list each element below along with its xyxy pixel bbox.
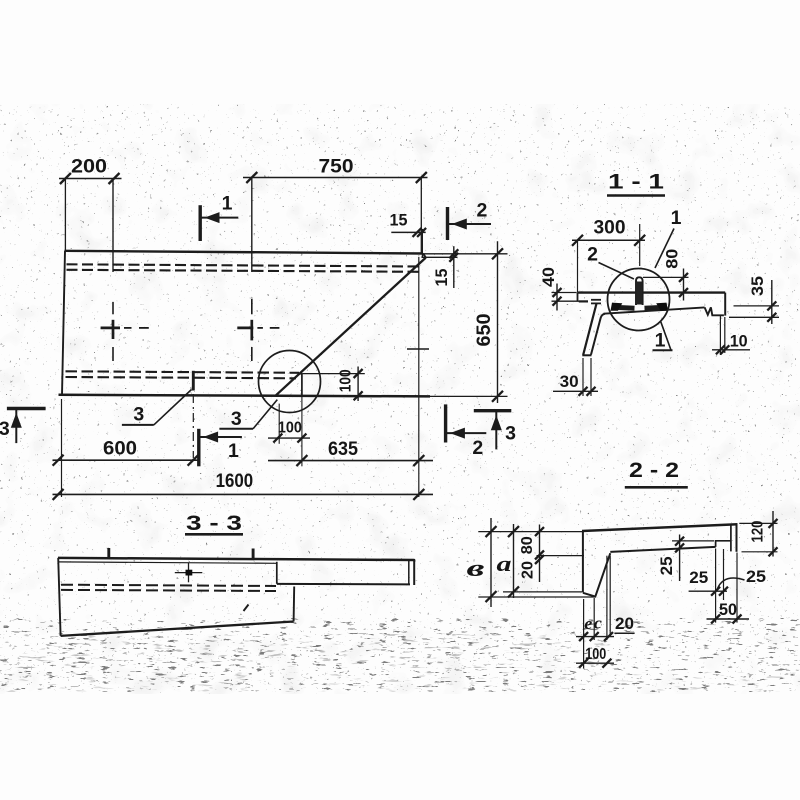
plan view: center line v2 dash bbox=[251, 299, 253, 314]
dimension 50 (2-2): line bbox=[707, 618, 750, 620]
svg-text:2: 2 bbox=[472, 437, 483, 459]
section mark 1 bottom: arrow line bbox=[199, 436, 242, 438]
section 3-3 cut mark on slab bbox=[192, 371, 195, 391]
svg-text:2: 2 bbox=[476, 200, 487, 222]
section 1-1: anchor right arm bbox=[645, 307, 666, 308]
dimension 750 right extension bbox=[420, 178, 422, 254]
plan view: center line v1 upper solid bbox=[112, 179, 114, 272]
section 2-2: leg left edge bbox=[582, 531, 584, 592]
plan view: notch horizontal edge bbox=[299, 373, 302, 375]
verticals under bar right (2-2) bbox=[715, 549, 717, 623]
scan speckle noise secondary bbox=[0, 110, 800, 690]
svg-text:25: 25 bbox=[657, 556, 676, 575]
svg-text:1: 1 bbox=[671, 207, 682, 229]
plan view: cross 2 horizontal thick bbox=[237, 327, 253, 330]
plan view: slab bottom edge bbox=[59, 395, 431, 397]
scan smudge band lower bbox=[0, 672, 800, 692]
detail circle in plan bbox=[259, 351, 321, 413]
section 3-3: anchor stem 1 bbox=[107, 548, 110, 559]
svg-text:а: а bbox=[497, 551, 512, 576]
section 1-1: V notch bbox=[705, 307, 711, 315]
section 3-3: dashed line 1 bbox=[61, 585, 276, 586]
plan view: notch vertical edge bbox=[301, 374, 303, 397]
svg-text:10: 10 bbox=[730, 331, 748, 350]
section 1-1: leg bottom bbox=[582, 354, 591, 356]
plan view: center line v2 lower dash bbox=[251, 347, 253, 361]
dimension e/c row (2-2): line bbox=[576, 636, 614, 638]
plan view: cross 2 dash-dot right bbox=[257, 327, 263, 329]
section 2-2 title underline bbox=[625, 486, 688, 489]
chamfer vertical extension bbox=[421, 229, 423, 257]
dimension 15 horizontal line bbox=[391, 231, 425, 233]
section mark 1 bottom: bar bbox=[197, 429, 200, 467]
svg-text:650: 650 bbox=[473, 313, 495, 346]
dimension 100 horizontal line bbox=[268, 437, 310, 439]
plan view: lower dashed line 2 bbox=[66, 377, 297, 378]
section 3-3: bar step vertical bbox=[276, 562, 278, 584]
plan view: slab top edge bbox=[65, 251, 424, 254]
dimension 15 vertical right: line bbox=[453, 246, 455, 288]
section mark 3 right: arrow line bbox=[495, 412, 497, 450]
plan view: cross 2 vertical thick bbox=[250, 320, 253, 341]
section 3-3: bar bottom line bbox=[277, 583, 410, 586]
dimension 10 (1-1): line bbox=[712, 349, 750, 351]
scan speckle dense bottom band bbox=[0, 618, 800, 692]
svg-text:80: 80 bbox=[519, 536, 536, 554]
svg-text:1: 1 bbox=[222, 193, 233, 215]
dimension 100 (2-2): line bbox=[576, 662, 614, 664]
plan view: diagonal edge bbox=[276, 258, 426, 396]
svg-text:30: 30 bbox=[560, 372, 579, 391]
svg-text:1: 1 bbox=[228, 440, 239, 462]
dimension 25 #2 (2-2): line bbox=[689, 590, 727, 592]
section mark 1 top: bar bbox=[198, 205, 201, 241]
svg-text:15: 15 bbox=[432, 269, 451, 287]
plan view: cross 1 dash-dot right bbox=[124, 327, 132, 329]
svg-text:2: 2 bbox=[587, 243, 598, 265]
svg-text:3 - 3: 3 - 3 bbox=[186, 511, 242, 535]
scan speckle noise main bbox=[0, 104, 800, 694]
small centerline dash on right extension bbox=[407, 348, 429, 350]
section 3-3: anchor stem 2 bbox=[252, 549, 255, 560]
plan view: center line v1 lower dash bbox=[112, 347, 114, 361]
section 1-1: leg outer edge bbox=[583, 304, 596, 355]
section mark 1 top: arrow line bbox=[200, 217, 238, 219]
section 3-3: dashed line 2 bbox=[61, 590, 276, 591]
plan view: upper dashed line 2 bbox=[67, 270, 420, 272]
svg-text:25: 25 bbox=[746, 567, 766, 586]
section 2-2: bar bottom line bbox=[610, 547, 715, 552]
section 2-2: step at right bottom bbox=[716, 541, 731, 547]
section 3-3: thin line under top bbox=[58, 562, 277, 563]
section 3-3 cut mark dash-dot down bbox=[192, 394, 194, 458]
section 2-2: right end cap lines bbox=[730, 524, 732, 552]
svg-text:35: 35 bbox=[748, 276, 767, 296]
dimension 40 (1-1): extensions bbox=[552, 292, 577, 294]
svg-text:с: с bbox=[594, 613, 602, 632]
dimension 200 left extension bbox=[64, 179, 66, 251]
dimension 120 (2-2): extensions bbox=[739, 522, 777, 524]
svg-text:200: 200 bbox=[71, 155, 107, 177]
svg-text:25: 25 bbox=[689, 568, 708, 587]
section 2-2: leg right edge sloped bbox=[595, 553, 610, 596]
dimension 100 vertical line bbox=[357, 367, 359, 402]
section 3-3: top line bbox=[58, 558, 415, 560]
plan view: center line v2 upper solid bbox=[251, 178, 253, 273]
section 1-1: plate bottom line bbox=[604, 307, 705, 313]
section 2-2: leg bottom bbox=[583, 593, 595, 597]
dimension 100 horizontal left extension bbox=[278, 404, 280, 444]
svg-text:3: 3 bbox=[0, 418, 10, 440]
svg-text:3: 3 bbox=[133, 404, 144, 426]
dimension 600: line bbox=[53, 459, 201, 461]
plan view: cross 1 vertical thick bbox=[112, 320, 115, 339]
section 2-2: top line bbox=[582, 524, 738, 531]
plan view: slab bottom edge extension to 650 dim bbox=[430, 395, 508, 397]
svg-text:20: 20 bbox=[520, 561, 537, 579]
section 3-3 title underline bbox=[185, 533, 243, 536]
svg-text:600: 600 bbox=[103, 437, 137, 459]
plan view: slab left edge bbox=[62, 251, 65, 395]
svg-text:2 - 2: 2 - 2 bbox=[629, 458, 679, 482]
top-right corner extension down to 1600 bbox=[418, 257, 420, 497]
section 1-1: step under right end bbox=[711, 307, 724, 315]
dimension 635: line bbox=[268, 460, 433, 462]
dimension 80 (1-1): extension at anchor top bbox=[643, 276, 689, 278]
svg-text:20: 20 bbox=[615, 614, 634, 633]
section 1-1 title underline bbox=[607, 194, 665, 197]
dimension 1600: line bbox=[53, 493, 434, 495]
plan view: notch horizontal extension line bbox=[302, 373, 365, 375]
section 3-3: rib right edge bbox=[293, 587, 296, 622]
svg-text:50: 50 bbox=[719, 600, 737, 619]
section mark 2 top: bar bbox=[446, 207, 449, 240]
dimension 80 (1-1): line bbox=[683, 269, 685, 301]
plan view: lower dashed line 1 bbox=[66, 371, 300, 373]
left edge extension down bbox=[61, 399, 63, 497]
section 3-3: fixing point cross bbox=[175, 572, 203, 574]
plan view: cross 1 horizontal thick bbox=[101, 327, 120, 330]
section mark 2 bottom: bar bbox=[444, 404, 447, 442]
dimension 650: line bbox=[497, 241, 499, 403]
dimension 30 (1-1): line bbox=[553, 390, 598, 392]
svg-text:40: 40 bbox=[539, 267, 558, 287]
dimension 35 (1-1): extensions bbox=[734, 305, 780, 307]
svg-text:635: 635 bbox=[328, 438, 358, 460]
section 1-1: anchor left arm bbox=[614, 307, 635, 308]
svg-text:120: 120 bbox=[749, 520, 766, 542]
section 2-2: left extensions bbox=[478, 531, 582, 533]
section 1-1: cut-off dash marks at left bbox=[579, 300, 588, 302]
dimension 80/20 (2-2): line bbox=[539, 525, 541, 583]
section mark 2 bottom: arrow line bbox=[446, 432, 487, 434]
section mark 3 right: bar bbox=[474, 409, 512, 412]
svg-text:3: 3 bbox=[231, 408, 242, 430]
svg-text:750: 750 bbox=[319, 155, 354, 177]
svg-text:300: 300 bbox=[594, 217, 626, 239]
dimension 25 #1 (2-2): extension bbox=[672, 540, 714, 542]
dimension 10 (1-1): extensions bbox=[719, 316, 721, 355]
dimension 300: center extension bbox=[639, 224, 641, 266]
dimension 120 (2-2): line bbox=[772, 511, 774, 557]
section mark 3 left: arrow line bbox=[15, 409, 17, 443]
dimension 25 #1 (2-2): line bbox=[679, 535, 681, 582]
section 1-1: anchor stem bbox=[636, 277, 643, 305]
dimension 40 (1-1): line bbox=[556, 284, 558, 311]
dimension 35 (1-1): line bbox=[771, 280, 773, 324]
dimension 750 line bbox=[243, 177, 428, 179]
section 3-3: stray slash mark bbox=[244, 605, 249, 612]
dimension 200 line bbox=[59, 178, 122, 180]
svg-text:е: е bbox=[584, 614, 592, 633]
dimension b (2-2): line bbox=[490, 518, 492, 607]
dimension a (2-2): line bbox=[513, 524, 515, 598]
dimension 300: left extension bbox=[577, 240, 579, 292]
svg-text:100: 100 bbox=[585, 646, 606, 663]
section 3-3: left edge bbox=[58, 558, 60, 636]
svg-text:15: 15 bbox=[390, 211, 408, 230]
section 3-3: right end double lines bbox=[408, 559, 410, 584]
section 1-1: leg inner edge bbox=[591, 314, 605, 355]
svg-text:3: 3 bbox=[505, 422, 516, 444]
svg-text:1 - 1: 1 - 1 bbox=[608, 170, 664, 194]
dimension 30 (1-1): extensions bbox=[582, 358, 584, 396]
bottom extensions (2-2) bbox=[583, 599, 585, 668]
section mark 3 left: bar bbox=[7, 407, 46, 410]
section 1-1: right edge bbox=[724, 293, 726, 316]
plan view: center line v1 dash bbox=[112, 302, 114, 314]
scan smudge band mid bbox=[0, 634, 620, 668]
scan speckle top band bbox=[0, 104, 800, 146]
section mark 2 top: arrow line bbox=[448, 223, 492, 225]
plan view: corner chamfer at top right bbox=[423, 254, 426, 258]
plan view: notch vertical extension down bbox=[301, 397, 303, 467]
svg-text:в: в bbox=[467, 556, 485, 582]
svg-text:100: 100 bbox=[338, 369, 355, 392]
section 3-3: rib bottom edge bbox=[61, 622, 294, 636]
svg-text:1600: 1600 bbox=[216, 470, 254, 492]
section 1-1: detail circle bbox=[608, 269, 670, 331]
paper mottle texture bbox=[0, 104, 800, 694]
plan view: upper dashed line 1 bbox=[67, 264, 422, 266]
section 1-1: top plate line bbox=[578, 291, 726, 293]
section 1-1: left end small edge bbox=[577, 293, 579, 302]
svg-text:80: 80 bbox=[663, 249, 682, 269]
dimension 300: line bbox=[572, 239, 645, 241]
dimension 15 vertical right: extensions bbox=[419, 253, 508, 255]
